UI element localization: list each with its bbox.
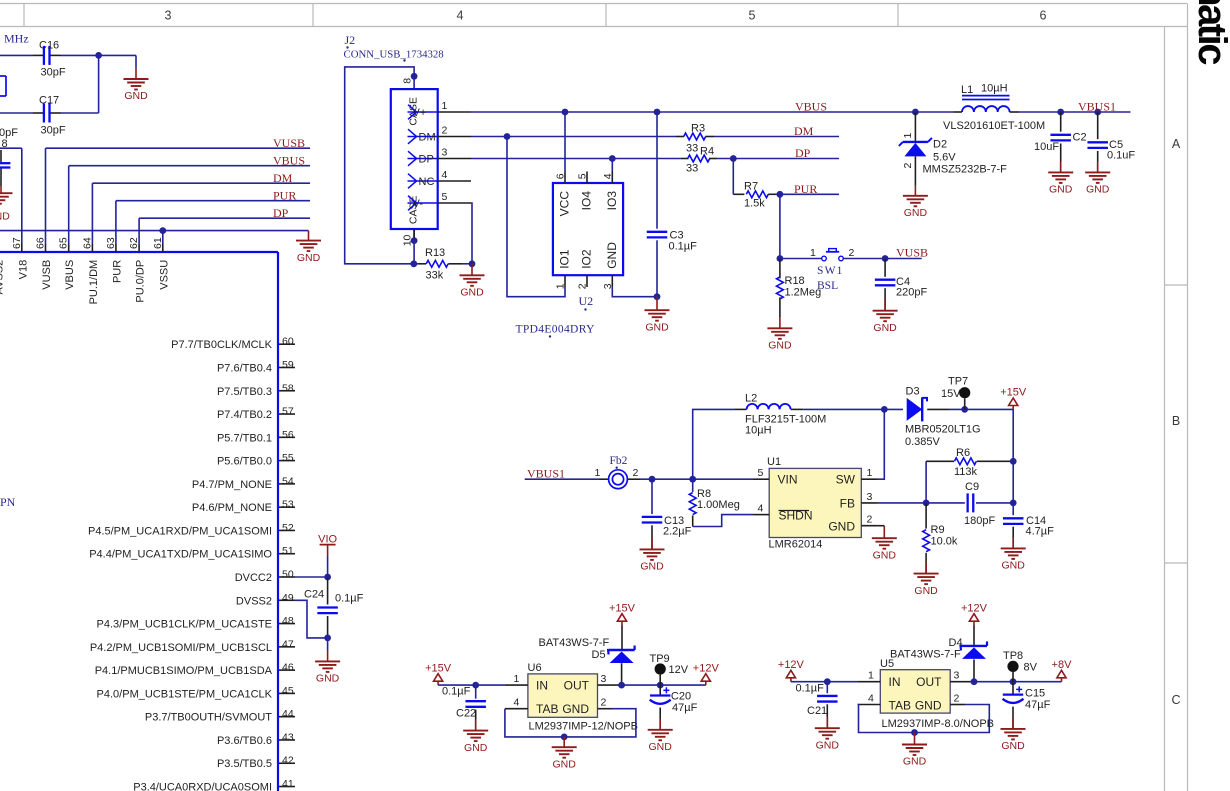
- svg-text:GND: GND: [1086, 184, 1110, 196]
- svg-text:67: 67: [11, 237, 23, 249]
- svg-text:SW1: SW1: [817, 265, 844, 277]
- svg-text:6: 6: [555, 173, 567, 179]
- svg-text:GND: GND: [124, 90, 148, 102]
- svg-text:B: B: [1172, 414, 1180, 428]
- svg-text:GND: GND: [915, 698, 942, 712]
- svg-text:R18: R18: [785, 275, 805, 287]
- svg-text:P4.2/PM_UCB1SOMI/PM_UCB1SCL: P4.2/PM_UCB1SOMI/PM_UCB1SCL: [90, 642, 272, 654]
- svg-text:FB: FB: [840, 497, 855, 511]
- svg-text:5: 5: [577, 173, 589, 179]
- svg-text:P4.0/PM_UCB1STE/PM_UCA1CLK: P4.0/PM_UCB1STE/PM_UCA1CLK: [97, 688, 273, 700]
- svg-text:33: 33: [686, 143, 698, 155]
- svg-text:GND: GND: [1002, 560, 1026, 572]
- svg-text:C24: C24: [304, 589, 324, 601]
- svg-text:GND: GND: [316, 673, 340, 685]
- svg-text:VBUS: VBUS: [273, 154, 305, 168]
- svg-text:GND: GND: [903, 756, 927, 768]
- svg-text:P4.5/PM_UCA1RXD/PM_UCA1SOMI: P4.5/PM_UCA1RXD/PM_UCA1SOMI: [88, 525, 272, 537]
- svg-text:D2: D2: [933, 139, 947, 151]
- svg-text:VUSB: VUSB: [896, 246, 928, 260]
- svg-text:1.5k: 1.5k: [744, 198, 765, 210]
- svg-text:10µH: 10µH: [745, 425, 772, 437]
- svg-text:180pF: 180pF: [964, 515, 995, 527]
- svg-text:3: 3: [954, 670, 960, 682]
- svg-text:VIN: VIN: [778, 473, 798, 487]
- svg-text:45: 45: [282, 685, 294, 697]
- svg-text:GND: GND: [768, 340, 792, 352]
- svg-text:GND: GND: [828, 520, 855, 534]
- svg-text:VBUS1: VBUS1: [527, 467, 565, 481]
- svg-text:6: 6: [1040, 9, 1047, 23]
- svg-text:4.7µF: 4.7µF: [1026, 526, 1055, 538]
- svg-text:61: 61: [152, 237, 164, 249]
- svg-text:TPD4E004DRY: TPD4E004DRY: [516, 324, 596, 336]
- svg-text:D5: D5: [592, 649, 606, 661]
- svg-text:GND: GND: [1001, 740, 1025, 752]
- svg-text:IO2: IO2: [580, 249, 594, 269]
- svg-text:64: 64: [81, 237, 93, 249]
- svg-text:D3: D3: [906, 386, 920, 398]
- svg-text:Fb2: Fb2: [610, 455, 628, 467]
- svg-text:113k: 113k: [954, 466, 978, 478]
- svg-text:62: 62: [128, 237, 140, 249]
- svg-text:VBUS: VBUS: [64, 260, 76, 290]
- svg-text:30pF: 30pF: [41, 125, 66, 137]
- svg-text:OUT: OUT: [916, 675, 942, 689]
- svg-text:U6: U6: [528, 662, 542, 674]
- svg-text:0.1µF: 0.1µF: [669, 241, 698, 253]
- svg-text:LM2937IMP-12/NOPB: LM2937IMP-12/NOPB: [529, 721, 638, 733]
- svg-text:2: 2: [902, 163, 914, 169]
- svg-text:IO4: IO4: [580, 191, 594, 211]
- svg-text:2: 2: [849, 247, 855, 259]
- svg-text:PUR: PUR: [111, 260, 123, 283]
- svg-text:P5.7/TB0.1: P5.7/TB0.1: [217, 432, 272, 444]
- svg-text:NC: NC: [419, 176, 435, 188]
- svg-text:OUT: OUT: [564, 679, 590, 693]
- svg-text:3: 3: [601, 673, 607, 685]
- svg-text:42: 42: [282, 755, 294, 767]
- svg-text:4: 4: [457, 9, 464, 23]
- svg-text:+12V: +12V: [961, 602, 988, 614]
- svg-text:MMSZ5232B-7-F: MMSZ5232B-7-F: [923, 164, 1008, 176]
- svg-text:PUR: PUR: [273, 189, 296, 203]
- svg-text:2: 2: [633, 467, 639, 479]
- svg-text:IN: IN: [889, 675, 901, 689]
- svg-text:TP8: TP8: [1003, 650, 1023, 662]
- svg-text:P4.1/PMUCB1SIMO/PM_UCB1SDA: P4.1/PMUCB1SIMO/PM_UCB1SDA: [95, 665, 273, 677]
- svg-text:C9: C9: [965, 481, 979, 493]
- svg-text:GND: GND: [464, 742, 488, 754]
- svg-text:1: 1: [514, 673, 520, 685]
- svg-text:GND: GND: [914, 585, 938, 597]
- svg-text:P4.7/PM_NONE: P4.7/PM_NONE: [192, 479, 272, 491]
- svg-text:MHz: MHz: [4, 32, 29, 46]
- svg-text:P4.4/PM_UCA1TXD/PM_UCA1SIMO: P4.4/PM_UCA1TXD/PM_UCA1SIMO: [89, 549, 272, 561]
- svg-text:GND: GND: [640, 561, 664, 573]
- svg-text:R6: R6: [956, 447, 970, 459]
- svg-text:52: 52: [282, 522, 294, 534]
- svg-text:30pF: 30pF: [41, 67, 66, 79]
- svg-text:43: 43: [282, 731, 294, 743]
- svg-text:A: A: [1172, 137, 1181, 151]
- svg-text:L1: L1: [961, 84, 973, 96]
- svg-text:P7.6/TB0.4: P7.6/TB0.4: [217, 362, 272, 374]
- svg-text:+15V: +15V: [609, 602, 636, 614]
- svg-text:58: 58: [282, 382, 294, 394]
- svg-text:2: 2: [867, 514, 873, 526]
- svg-text:C: C: [1171, 693, 1180, 707]
- svg-text:VIO: VIO: [318, 533, 337, 545]
- svg-text:D4: D4: [949, 637, 963, 649]
- svg-text:P3.6/TB0.6: P3.6/TB0.6: [217, 735, 272, 747]
- svg-text:GND: GND: [297, 252, 321, 264]
- svg-text:3: 3: [165, 9, 172, 23]
- svg-text:J2: J2: [345, 33, 356, 47]
- svg-text:C22: C22: [456, 708, 476, 720]
- svg-text:47: 47: [282, 638, 294, 650]
- svg-text:U1: U1: [767, 456, 781, 468]
- svg-text:63: 63: [105, 237, 117, 249]
- svg-text:R3: R3: [691, 123, 705, 135]
- svg-text:33k: 33k: [426, 270, 444, 282]
- svg-text:GND: GND: [0, 211, 10, 223]
- svg-text:66: 66: [35, 237, 47, 249]
- svg-text:2: 2: [954, 692, 960, 704]
- svg-text:2: 2: [601, 697, 607, 709]
- svg-text:C17: C17: [39, 95, 59, 107]
- svg-text:R7: R7: [744, 181, 758, 193]
- svg-text:L2: L2: [745, 393, 757, 405]
- svg-text:R9: R9: [931, 524, 945, 536]
- svg-text:2.2µF: 2.2µF: [663, 526, 692, 538]
- svg-text:GND: GND: [460, 287, 484, 299]
- svg-text:0.1µF: 0.1µF: [335, 593, 364, 605]
- svg-text:PN: PN: [0, 495, 16, 509]
- svg-text:VUSB: VUSB: [41, 260, 53, 290]
- svg-text:TP9: TP9: [650, 653, 670, 665]
- svg-text:GND: GND: [605, 242, 619, 269]
- svg-text:1: 1: [810, 247, 816, 259]
- svg-text:15V: 15V: [941, 388, 961, 400]
- svg-text:V18: V18: [17, 260, 29, 280]
- svg-text:57: 57: [282, 406, 294, 418]
- svg-text:+12V: +12V: [693, 662, 720, 674]
- svg-text:DP: DP: [419, 153, 434, 165]
- svg-text:46: 46: [282, 662, 294, 674]
- svg-text:4: 4: [758, 503, 764, 515]
- svg-text:VCC: VCC: [558, 191, 572, 217]
- svg-text:0.1uF: 0.1uF: [1107, 150, 1135, 162]
- svg-text:IO1: IO1: [558, 249, 572, 269]
- svg-text:DP: DP: [795, 146, 811, 160]
- svg-text:GND: GND: [645, 321, 669, 333]
- svg-text:1: 1: [902, 133, 914, 139]
- svg-text:P3.4/UCA0RXD/UCA0SOMI: P3.4/UCA0RXD/UCA0SOMI: [133, 782, 272, 791]
- svg-text:VBUS1: VBUS1: [1078, 99, 1116, 113]
- svg-text:U2: U2: [579, 294, 594, 308]
- svg-text:5: 5: [758, 467, 764, 479]
- svg-text:GND: GND: [562, 702, 589, 716]
- svg-text:VSSU: VSSU: [158, 260, 170, 290]
- svg-text:53: 53: [282, 499, 294, 511]
- svg-text:1: 1: [442, 100, 448, 112]
- svg-text:5.6V: 5.6V: [933, 152, 956, 164]
- svg-text:C16: C16: [39, 40, 59, 52]
- svg-text:GND: GND: [873, 322, 897, 334]
- svg-text:33: 33: [686, 163, 698, 175]
- svg-text:2: 2: [442, 125, 448, 137]
- svg-text:0.1µF: 0.1µF: [442, 686, 471, 698]
- svg-text:ematic: ematic: [1190, 0, 1230, 65]
- svg-text:1: 1: [867, 467, 873, 479]
- svg-text:BAT43WS-7-F: BAT43WS-7-F: [890, 649, 961, 661]
- svg-text:48: 48: [282, 615, 294, 627]
- svg-text:PUR: PUR: [794, 182, 817, 196]
- svg-text:P7.4/TB0.2: P7.4/TB0.2: [217, 409, 272, 421]
- svg-text:GND: GND: [649, 741, 673, 753]
- svg-text:TAB: TAB: [889, 698, 911, 712]
- svg-text:4: 4: [442, 169, 448, 181]
- svg-text:IN: IN: [536, 679, 548, 693]
- svg-text:BAT43WS-7-F: BAT43WS-7-F: [539, 637, 610, 649]
- svg-text:44: 44: [282, 708, 294, 720]
- svg-text:DM: DM: [419, 131, 436, 143]
- svg-text:1: 1: [868, 670, 874, 682]
- svg-text:1: 1: [595, 467, 601, 479]
- svg-text:P5.6/TB0.0: P5.6/TB0.0: [217, 456, 272, 468]
- svg-text:TP7: TP7: [948, 376, 968, 388]
- svg-text:C2: C2: [1073, 132, 1087, 144]
- svg-text:4: 4: [602, 173, 614, 179]
- svg-text:GND: GND: [816, 739, 840, 751]
- svg-text:C21: C21: [807, 705, 827, 717]
- svg-text:P3.5/TB0.5: P3.5/TB0.5: [217, 758, 272, 770]
- svg-text:PU.1/DM: PU.1/DM: [88, 260, 100, 305]
- svg-text:1.2Meg: 1.2Meg: [785, 287, 822, 299]
- svg-text:+8V: +8V: [1052, 659, 1073, 671]
- svg-text:R4: R4: [700, 146, 714, 158]
- svg-text:V+: V+: [413, 107, 427, 119]
- svg-text:12V: 12V: [669, 664, 689, 676]
- svg-text:VLS201610ET-100M: VLS201610ET-100M: [943, 120, 1045, 132]
- svg-text:VUSB: VUSB: [273, 136, 305, 150]
- svg-text:P7.5/TB0.3: P7.5/TB0.3: [217, 386, 272, 398]
- svg-text:54: 54: [282, 475, 294, 487]
- svg-text:4: 4: [514, 697, 520, 709]
- svg-text:MBR0520LT1G: MBR0520LT1G: [905, 424, 981, 436]
- svg-text:+15V: +15V: [425, 662, 452, 674]
- svg-text:P4.3/PM_UCB1CLK/PM_UCA1STE: P4.3/PM_UCB1CLK/PM_UCA1STE: [97, 619, 272, 631]
- svg-text:BSL: BSL: [817, 280, 838, 292]
- svg-text:56: 56: [282, 429, 294, 441]
- svg-text:10uF: 10uF: [1034, 141, 1059, 153]
- svg-text:C15: C15: [1025, 688, 1045, 700]
- svg-text:GND: GND: [553, 758, 577, 770]
- svg-text:3: 3: [442, 147, 448, 159]
- svg-text:SW: SW: [836, 473, 856, 487]
- svg-text:CONN_USB_1734328: CONN_USB_1734328: [344, 49, 444, 61]
- svg-text:LM2937IMP-8.0/NOPB: LM2937IMP-8.0/NOPB: [882, 718, 995, 730]
- svg-text:65: 65: [58, 237, 70, 249]
- svg-text:5: 5: [749, 9, 756, 23]
- svg-text:P7.7/TB0CLK/MCLK: P7.7/TB0CLK/MCLK: [171, 339, 273, 351]
- svg-text:0.1µF: 0.1µF: [796, 683, 825, 695]
- svg-text:VBUS: VBUS: [795, 100, 827, 114]
- svg-text:PU.0/DP: PU.0/DP: [135, 260, 147, 303]
- svg-text:TAB: TAB: [536, 702, 558, 716]
- svg-text:49: 49: [282, 592, 294, 604]
- svg-text:51: 51: [282, 545, 294, 557]
- svg-text:IO3: IO3: [605, 191, 619, 211]
- svg-text:55: 55: [282, 452, 294, 464]
- svg-text:41: 41: [282, 778, 294, 790]
- svg-text:DP: DP: [273, 206, 289, 220]
- svg-text:+15V: +15V: [1000, 387, 1027, 399]
- svg-text:DM: DM: [273, 171, 293, 185]
- svg-text:3: 3: [867, 491, 873, 503]
- svg-text:AVSS2: AVSS2: [0, 260, 6, 295]
- svg-text:47µF: 47µF: [672, 702, 698, 714]
- svg-text:10µH: 10µH: [981, 83, 1008, 95]
- svg-text:0.385V: 0.385V: [905, 436, 941, 448]
- svg-text:DM: DM: [794, 124, 814, 138]
- svg-text:R13: R13: [425, 247, 445, 259]
- svg-text:4: 4: [868, 692, 874, 704]
- svg-text:GND: GND: [873, 549, 897, 561]
- svg-text:1.00Meg: 1.00Meg: [697, 499, 740, 511]
- svg-text:GND: GND: [904, 207, 928, 219]
- svg-text:8V: 8V: [1024, 662, 1038, 674]
- svg-text:8: 8: [401, 78, 413, 84]
- svg-text:GND: GND: [1049, 184, 1073, 196]
- svg-text:50: 50: [282, 569, 294, 581]
- svg-text:2: 2: [577, 283, 589, 289]
- svg-text:+12V: +12V: [778, 659, 805, 671]
- svg-text:5: 5: [442, 191, 448, 203]
- svg-text:220pF: 220pF: [896, 287, 927, 299]
- svg-text:10: 10: [401, 234, 413, 246]
- svg-text:V-: V-: [413, 198, 424, 210]
- svg-text:10.0k: 10.0k: [931, 536, 958, 548]
- svg-text:60: 60: [282, 336, 294, 348]
- svg-text:P4.6/PM_NONE: P4.6/PM_NONE: [192, 502, 272, 514]
- svg-text:DVSS2: DVSS2: [236, 595, 272, 607]
- svg-text:DVCC2: DVCC2: [235, 572, 272, 584]
- svg-text:47µF: 47µF: [1025, 699, 1051, 711]
- svg-text:59: 59: [282, 359, 294, 371]
- svg-text:LMR62014: LMR62014: [769, 539, 823, 551]
- svg-text:P3.7/TB0OUTH/SVMOUT: P3.7/TB0OUTH/SVMOUT: [145, 712, 272, 724]
- svg-text:C20: C20: [671, 691, 691, 703]
